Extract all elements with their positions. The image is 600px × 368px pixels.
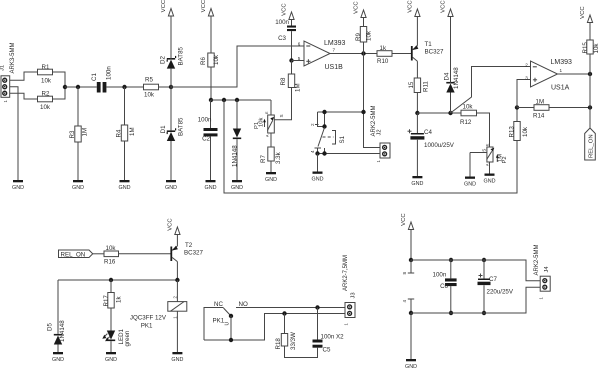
wire R13 to pin3 node [516, 108, 518, 122]
capacitor C6 100n [433, 272, 457, 291]
svg-text:R8: R8 [280, 77, 287, 85]
svg-text:P2: P2 [502, 156, 508, 163]
wire R7 to ground [270, 161, 272, 172]
svg-text:GND: GND [165, 185, 177, 191]
node common junction [229, 338, 233, 342]
node C7 bottom [482, 311, 486, 315]
svg-text:VCC: VCC [441, 0, 447, 13]
svg-text:US1B: US1B [325, 64, 344, 71]
svg-text:T2: T2 [185, 242, 193, 249]
ground GND R4 [119, 180, 131, 191]
resistor R16 10k [104, 245, 119, 266]
svg-text:VCC: VCC [580, 6, 586, 19]
svg-text:1000u/25V: 1000u/25V [424, 142, 455, 149]
ground GND D1 [165, 180, 177, 191]
svg-text:GND: GND [72, 185, 84, 191]
svg-text:7: 7 [333, 48, 336, 53]
svg-text:2: 2 [310, 123, 315, 126]
op-amp US1A LM393 [525, 59, 572, 92]
wire top rail to J4 [411, 260, 540, 281]
svg-text:D4: D4 [444, 72, 451, 80]
resistor R14 1M [533, 98, 549, 119]
wire P1 to R7 [270, 133, 272, 147]
svg-text:S: S [481, 149, 486, 152]
ground GND R3 [72, 180, 84, 191]
power VCC R6 [201, 0, 213, 53]
node pin3 junction [515, 105, 519, 109]
svg-text:GND: GND [205, 185, 217, 191]
svg-text:GND: GND [312, 177, 324, 183]
wire C3 to pin5 node [291, 31, 293, 60]
capacitor C1 100n [91, 66, 113, 93]
wire node to US1B pin6 [171, 46, 304, 87]
svg-text:10k: 10k [40, 104, 51, 111]
pin 4 stub [402, 299, 414, 313]
potentiometer P1 10k [254, 111, 274, 137]
ground GND LED1 [105, 352, 117, 363]
resistor R6 10k [200, 53, 220, 67]
wire R4 lead [124, 87, 126, 125]
svg-text:R4: R4 [115, 129, 122, 137]
resistor R15 10k [582, 40, 600, 54]
node B junction feedback [222, 98, 226, 102]
connector J3 ARK2-7,5MM [343, 255, 357, 326]
svg-text:10k: 10k [522, 126, 529, 137]
svg-text:10k: 10k [365, 30, 372, 41]
svg-text:100n: 100n [433, 272, 447, 279]
svg-text:R7: R7 [260, 155, 267, 163]
transistor T2 BC327 [170, 242, 203, 262]
svg-text:C1: C1 [91, 73, 98, 81]
svg-text:J2: J2 [376, 129, 382, 135]
wire C6 top lead [450, 260, 452, 278]
ground GND S1 [312, 172, 324, 183]
wire S1 bottom rail [318, 153, 381, 155]
svg-text:VCC: VCC [408, 0, 414, 13]
wire P1 wiper to R8 [274, 88, 291, 120]
junction R3 tap [76, 85, 80, 89]
node diode clamp junction [169, 85, 173, 89]
svg-text:1: 1 [560, 68, 563, 73]
resistor R8 1M [280, 74, 301, 92]
svg-text:JQC3FF 12V: JQC3FF 12V [130, 315, 167, 322]
node output junction R9 [361, 51, 365, 55]
svg-text:LM393: LM393 [551, 59, 573, 66]
power VCC T2 [168, 218, 180, 235]
node S1 rail junction [361, 110, 365, 114]
svg-text:R17: R17 [103, 295, 110, 307]
power VCC C3 [282, 3, 294, 26]
node B junction D3 [235, 98, 239, 102]
resistor R10 1k [377, 45, 392, 65]
svg-text:LM393: LM393 [324, 40, 346, 47]
diode D3 1N4148 [231, 129, 241, 168]
wire node C to US1A pin2 [451, 67, 531, 114]
ground GND PK1 coil [171, 352, 183, 363]
potentiometer P2 1M [485, 143, 508, 166]
svg-text:NO: NO [239, 301, 248, 308]
svg-text:D5: D5 [47, 323, 54, 331]
wire R17 to LED1 [110, 308, 112, 331]
wire S1 to ground [317, 154, 319, 172]
svg-text:4: 4 [402, 300, 407, 303]
svg-text:VCC: VCC [282, 3, 288, 16]
svg-text:C7: C7 [489, 276, 497, 283]
wire R3 lead [77, 87, 79, 126]
svg-text:GND: GND [52, 357, 64, 363]
wire C4 lead [416, 113, 418, 133]
svg-text:GND: GND [411, 181, 423, 187]
wire to supply ground [410, 313, 412, 359]
power VCC R9 [354, 1, 366, 27]
svg-text:J4: J4 [544, 266, 550, 273]
svg-text:R3: R3 [69, 130, 76, 138]
wire D1 cathode lead [170, 87, 172, 130]
wire node B to P1 [270, 100, 272, 115]
ground GND C4 [411, 176, 423, 187]
svg-text:R5: R5 [145, 77, 153, 84]
node R18 tap [282, 311, 286, 315]
wire J1 pin 3 to R2 [10, 93, 38, 99]
wire node A to C1 [65, 86, 97, 88]
svg-text:S1: S1 [339, 135, 346, 143]
svg-text:1M: 1M [82, 128, 89, 137]
svg-text:100n X2: 100n X2 [321, 334, 345, 341]
connector J2 ARK2-5MM [371, 105, 390, 162]
relay contact PK1 [204, 301, 248, 340]
wire relay coil lead [176, 280, 178, 302]
svg-text:ARK2-7,5MM: ARK2-7,5MM [343, 255, 349, 291]
diode D1 BAT85 [160, 117, 185, 141]
transistor T1 BC327 [411, 41, 444, 61]
ground GND supply [405, 359, 417, 368]
svg-text:R12: R12 [460, 119, 472, 126]
resistor R2 10k [38, 91, 53, 112]
power VCC D4 [441, 0, 453, 17]
wire C6 bottom lead [450, 286, 452, 313]
svg-text:D1: D1 [160, 125, 167, 133]
svg-text:1k: 1k [380, 45, 387, 52]
svg-text:VCC: VCC [168, 218, 174, 231]
ground GND C2 [205, 180, 217, 191]
wire J1 pin 1 to R1 [10, 72, 38, 80]
svg-text:1N4148: 1N4148 [453, 67, 460, 89]
svg-text:J1: J1 [0, 65, 5, 71]
ground GND D3 [231, 180, 243, 191]
wire R6 to node B [210, 67, 212, 100]
svg-text:6: 6 [298, 42, 301, 47]
resistor R5 10k [144, 77, 159, 99]
ground GND P2 [484, 174, 496, 185]
wire node C rail [417, 112, 461, 114]
wire C7 top lead [483, 260, 485, 279]
svg-text:ARK3-5MM: ARK3-5MM [10, 42, 16, 73]
wire R9 to output node [363, 42, 365, 54]
wire LED1 to ground [110, 341, 112, 352]
LED LED1 green [102, 328, 131, 346]
diode D2 BAT85 [160, 46, 185, 68]
wire D4 cathode to VCC [450, 17, 452, 83]
wire feedback long run [224, 100, 517, 193]
node A junction [63, 85, 67, 89]
wire C7 bottom lead [483, 285, 485, 313]
wire node B rail [211, 99, 271, 101]
svg-text:10k: 10k [106, 245, 117, 252]
svg-text:ARK2-5MM: ARK2-5MM [534, 244, 540, 275]
svg-text:1k: 1k [116, 296, 123, 303]
node bottom rail junction [409, 311, 413, 315]
svg-text:C4: C4 [424, 129, 432, 136]
resistor R18 33/3W [275, 332, 297, 350]
wire pin3 [517, 80, 531, 108]
svg-text:GND: GND [265, 177, 277, 183]
svg-text:GND: GND [12, 185, 24, 191]
svg-text:33/3W: 33/3W [290, 332, 297, 350]
svg-text:220u/25V: 220u/25V [487, 289, 514, 296]
ground GND P2 wiper [464, 177, 476, 188]
svg-text:VCC: VCC [161, 0, 167, 12]
node B junction R6 [209, 98, 213, 102]
svg-text:R14: R14 [533, 113, 545, 120]
svg-text:10k: 10k [593, 43, 600, 54]
wire R1 to node A [53, 72, 66, 87]
resistor R17 1k [103, 293, 123, 309]
wire R2 to node A [53, 87, 66, 99]
wire R18 lead [284, 314, 286, 334]
node LED tap [109, 278, 113, 282]
node C junction [415, 111, 419, 115]
svg-text:REL_ON: REL_ON [588, 134, 594, 158]
svg-text:10k: 10k [259, 118, 265, 127]
wire D1 to ground [170, 141, 172, 180]
resistor R3 1M [69, 126, 89, 142]
wire R15 to output [589, 54, 591, 74]
wire C2 to ground [210, 136, 212, 180]
resistor R11 15 [408, 78, 430, 93]
svg-text:10k: 10k [213, 54, 220, 65]
svg-text:10k: 10k [463, 104, 474, 111]
svg-text:D2: D2 [160, 56, 167, 64]
wire T1 collector to R11 [416, 61, 418, 78]
capacitor C2 100n [198, 117, 218, 143]
svg-text:R1: R1 [42, 64, 50, 71]
svg-text:4: 4 [310, 150, 315, 153]
wire D3 lead [236, 100, 238, 129]
svg-text:BC327: BC327 [425, 49, 444, 56]
wire J1 pin 2 to ground [10, 87, 18, 180]
svg-text:VCC: VCC [354, 1, 360, 14]
net flag REL_ON right [585, 128, 596, 160]
svg-text:PK1: PK1 [141, 323, 153, 330]
svg-text:R10: R10 [377, 58, 389, 65]
diode D4 1N4148 [444, 67, 461, 93]
svg-text:green: green [124, 330, 131, 346]
capacitor C5 100n X2 [313, 334, 345, 354]
node pin5 junction [289, 58, 293, 62]
connector J4 ARK2-5MM [534, 244, 550, 299]
svg-text:1M: 1M [295, 83, 302, 92]
svg-text:J3: J3 [351, 292, 357, 298]
svg-text:GND: GND [464, 182, 476, 188]
wire bottom rail to J4 [411, 287, 540, 313]
svg-text:R11: R11 [423, 81, 430, 92]
op-amp US1B LM393 [298, 40, 346, 71]
svg-text:R9: R9 [355, 33, 362, 41]
svg-text:GND: GND [405, 364, 417, 368]
svg-text:15: 15 [408, 81, 415, 88]
svg-text:S: S [279, 114, 284, 117]
wire US1B output [330, 53, 377, 55]
wire pin3 node to R14 [517, 107, 534, 109]
svg-text:R13: R13 [509, 126, 516, 138]
resistor R7 3.3k [260, 147, 282, 164]
svg-text:PK1: PK1 [213, 318, 225, 325]
svg-text:1M: 1M [129, 127, 136, 136]
wire C2 lead [210, 100, 212, 128]
resistor R1 10k [38, 64, 53, 85]
wire pin5 node to R8 [291, 61, 293, 75]
wire C5 top lead [317, 308, 319, 340]
relay coil PK1 JQC3FF 12V [130, 296, 187, 330]
svg-text:1N4148: 1N4148 [59, 320, 66, 342]
wire US1A output [558, 73, 591, 75]
wire D5 to ground [57, 345, 59, 353]
wire common to J3 [204, 314, 345, 341]
wire to D5 [57, 280, 59, 334]
wire R17 lead [110, 280, 112, 293]
power VCC R15 [580, 6, 592, 40]
svg-text:VCC: VCC [201, 0, 207, 12]
svg-text:5: 5 [298, 56, 301, 61]
svg-text:100n: 100n [198, 117, 212, 124]
wire C1 to R5 [106, 86, 143, 88]
ground GND R7 [265, 172, 277, 183]
power VCC supply [401, 213, 413, 260]
resistor R12 10k [460, 104, 477, 127]
svg-text:GND: GND [119, 185, 131, 191]
svg-text:NC: NC [214, 301, 223, 308]
svg-text:10k: 10k [41, 78, 52, 85]
capacitor C3 100n [275, 19, 296, 42]
svg-text:GND: GND [231, 185, 243, 191]
svg-text:R2: R2 [42, 91, 50, 98]
capacitor C7 220u/25V [478, 274, 514, 296]
svg-text:C6: C6 [440, 283, 448, 290]
svg-text:BAT85: BAT85 [177, 46, 184, 65]
svg-text:3: 3 [525, 76, 528, 81]
ground GND D5 [52, 352, 64, 363]
wire output node to J2 [364, 54, 381, 148]
diode D5 1N4148 [47, 320, 67, 345]
net flag REL_ON left [59, 250, 93, 258]
svg-text:C2: C2 [202, 136, 210, 143]
svg-text:C5: C5 [323, 347, 331, 354]
svg-text:10k: 10k [144, 92, 155, 99]
svg-text:BC327: BC327 [184, 250, 203, 257]
wire NO contact to J3 [236, 307, 345, 309]
junction R4 tap [122, 85, 126, 89]
switch S1 [310, 110, 346, 154]
wire R4 to ground [124, 141, 126, 180]
wire D2 anode lead [170, 69, 172, 87]
node US1A output junction [588, 72, 592, 76]
svg-text:BAT85: BAT85 [177, 117, 184, 136]
svg-text:1M: 1M [536, 98, 545, 105]
wire wiper to ground [469, 153, 471, 177]
wire R12 to P2 [477, 113, 490, 147]
wire R14 to output node [549, 107, 590, 109]
resistor R9 10k [355, 27, 372, 43]
wire S1 top rail [318, 111, 364, 113]
wire output to REL_ON flag [589, 74, 591, 128]
wire R16 to T2 base [119, 253, 171, 255]
wire D4 anode lead [450, 93, 452, 114]
svg-text:2: 2 [525, 62, 528, 67]
wire REL_ON to R16 [93, 253, 104, 255]
ground GND J1 [12, 180, 24, 191]
svg-text:VCC: VCC [401, 213, 407, 226]
svg-text:US1A: US1A [551, 85, 570, 92]
svg-text:100n: 100n [275, 19, 289, 26]
wire C4 to ground [416, 140, 418, 176]
wire R5 to diode node [159, 86, 172, 88]
wire T2 collector [176, 262, 178, 280]
wire P2 wiper [470, 149, 487, 153]
svg-text:3.3k: 3.3k [275, 151, 282, 164]
wire T2 emitter to VCC [176, 235, 178, 247]
wire D2 cathode to VCC [170, 24, 172, 59]
node R14 output junction [588, 105, 592, 109]
wire P2 bottom to ground [489, 162, 491, 174]
node C6 bottom [449, 311, 453, 315]
node supply rail junction [409, 258, 413, 262]
svg-text:U: U [225, 322, 231, 326]
node C5 tap [315, 305, 319, 309]
svg-text:100n: 100n [105, 66, 112, 80]
node C junction D4 [448, 111, 452, 115]
wire D3 to ground [236, 139, 238, 180]
wire pin5 [292, 60, 305, 62]
connector J1 ARK3-5MM [0, 42, 16, 102]
power VCC D2 [161, 0, 173, 24]
svg-text:GND: GND [484, 179, 496, 185]
svg-text:R16: R16 [104, 259, 116, 266]
svg-text:T1: T1 [425, 41, 433, 48]
wire R3 to ground [77, 142, 79, 180]
svg-text:GND: GND [171, 357, 183, 363]
power VCC T1 [408, 0, 420, 17]
wire R18 to C5 bottom [285, 346, 318, 358]
svg-text:8: 8 [402, 272, 407, 275]
node S1 gnd junction [315, 151, 319, 155]
node C7 top [482, 258, 486, 262]
node C6 top [449, 258, 453, 262]
svg-text:C3: C3 [278, 35, 286, 42]
svg-text:R15: R15 [582, 42, 589, 54]
wire R10 to T1 base [392, 53, 411, 55]
pin 8 stub [402, 260, 414, 275]
svg-text:GND: GND [105, 357, 117, 363]
wire T1 emitter to VCC [416, 17, 418, 46]
svg-text:R18: R18 [275, 338, 282, 350]
node relay tap [175, 278, 179, 282]
svg-text:R6: R6 [200, 57, 207, 65]
resistor R13 10k [509, 122, 530, 141]
capacitor C4 1000u/25V [408, 129, 455, 149]
wire R11 to node C [416, 93, 418, 114]
resistor R4 1M [115, 125, 136, 141]
svg-text:REL_ON: REL_ON [61, 251, 86, 258]
